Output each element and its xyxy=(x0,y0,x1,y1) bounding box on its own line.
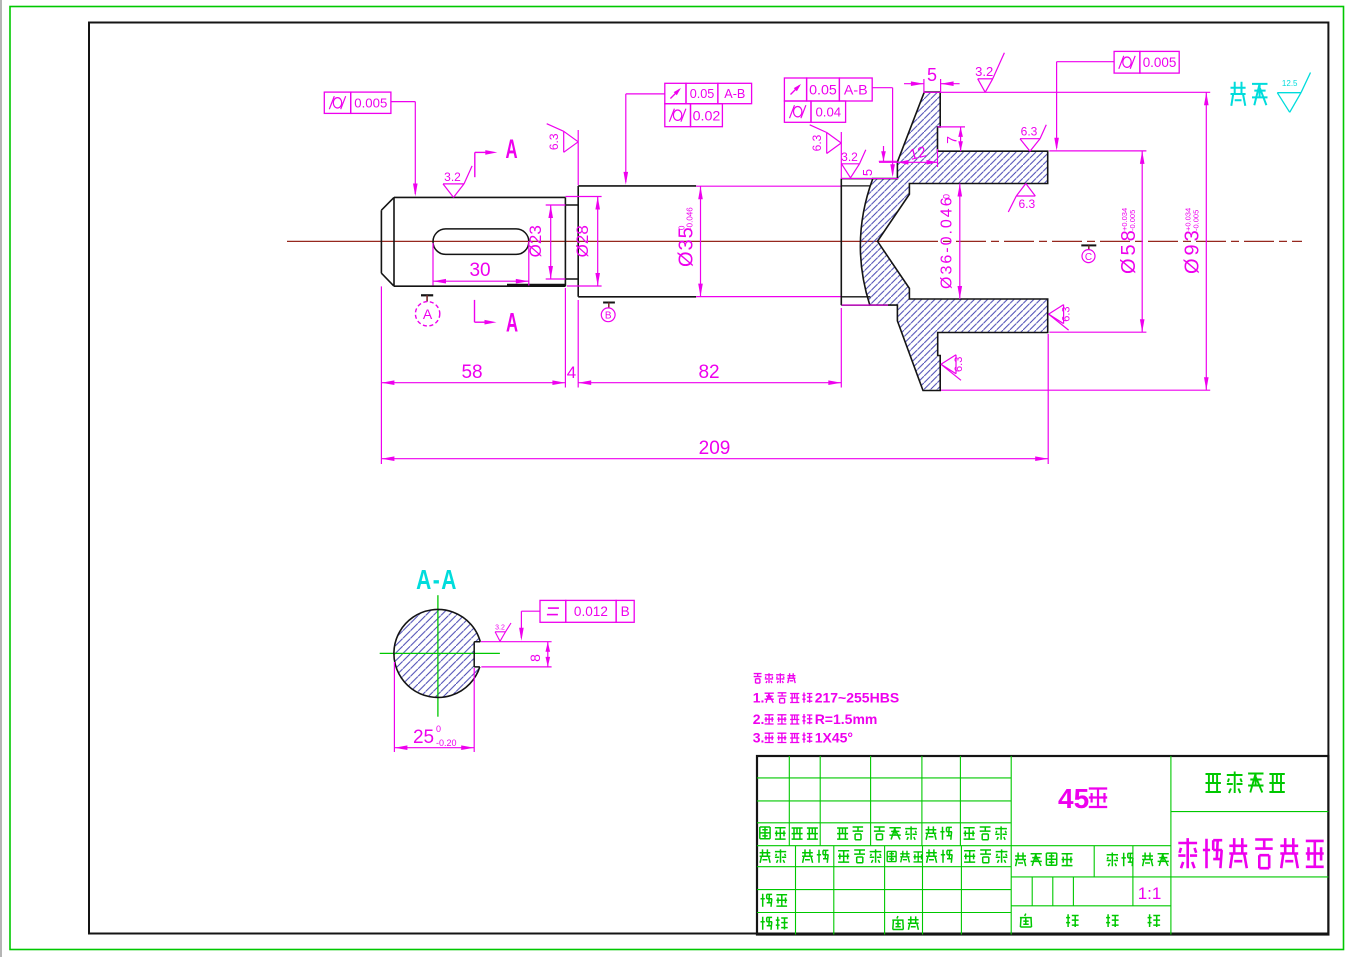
svg-text:6.3: 6.3 xyxy=(1061,306,1073,321)
technical notes (magenta) xyxy=(754,674,762,684)
dim 58 extension lines xyxy=(380,286,382,387)
datum B symbol xyxy=(603,302,615,304)
dim 25 line xyxy=(394,747,474,749)
svg-text:5: 5 xyxy=(927,65,937,85)
svg-text:0.05: 0.05 xyxy=(809,83,837,99)
section arrow A bottom xyxy=(474,300,476,322)
dim 4 extension line right xyxy=(577,300,579,388)
section arrow A top xyxy=(474,152,476,177)
roughness 6.3 at lower back face xyxy=(941,355,956,365)
svg-text:3.2: 3.2 xyxy=(444,170,461,184)
roughness 6.3 on hub top face xyxy=(1020,139,1030,152)
bell neck end line at shaft junction xyxy=(840,179,842,306)
datum A symbol xyxy=(421,294,433,296)
svg-text:Ø58: Ø58 xyxy=(1118,227,1140,274)
shenhe label xyxy=(761,894,773,907)
dim O35 line xyxy=(700,186,702,296)
svg-text:5: 5 xyxy=(860,169,875,176)
shaft O35 edge continuation (magenta extension over shaft) xyxy=(696,185,841,187)
svg-text:12.5: 12.5 xyxy=(1282,79,1298,88)
roughness 3.2 on neck face xyxy=(842,164,851,178)
A-A keyway notch white cutout xyxy=(474,642,484,667)
dim O23 line xyxy=(550,205,552,279)
svg-text:0: 0 xyxy=(942,194,952,199)
A-A hatched circle xyxy=(394,609,482,697)
shaft edge stubs into bell xyxy=(841,186,870,297)
svg-text:Ø93: Ø93 xyxy=(1182,227,1204,274)
xiangtan university title xyxy=(1206,774,1221,792)
neck top and bottom faces xyxy=(841,179,873,306)
svg-text:A-A: A-A xyxy=(416,565,458,596)
FCF neck leader xyxy=(872,87,892,89)
svg-text:R=1.5mm: R=1.5mm xyxy=(815,711,878,727)
title block left grid verticals upper xyxy=(788,756,790,846)
dim 5 line and arrows xyxy=(904,83,924,85)
relief groove O23 xyxy=(565,205,578,279)
svg-text:7: 7 xyxy=(944,136,960,144)
shaft left section O28 outline with chamfers xyxy=(381,197,565,286)
dim 82 line xyxy=(578,382,841,384)
FCF top right leader xyxy=(1057,61,1115,63)
svg-text:A-B: A-B xyxy=(724,87,745,101)
drawing title shuru zhou lingjian tu xyxy=(1178,838,1197,868)
FCF left leader xyxy=(391,101,415,103)
dim O93 extension lines xyxy=(923,91,1210,93)
shaft O35 section outline xyxy=(578,186,696,297)
svg-text:8: 8 xyxy=(527,654,543,662)
svg-text:6.3: 6.3 xyxy=(1021,125,1038,139)
keyway slot on left section xyxy=(433,229,529,255)
FCF parallelism 0.012 B xyxy=(540,600,566,622)
gong zhang di zhang labels xyxy=(1020,914,1032,927)
svg-text:3.2: 3.2 xyxy=(841,150,858,164)
title block outer border xyxy=(757,756,1328,935)
dim 5 gear tip width extensions xyxy=(923,79,925,92)
roughness 6.3 rotated at O35 shoulder xyxy=(564,131,579,142)
jieduanbiaoji label xyxy=(1015,853,1026,867)
svg-text:6.3: 6.3 xyxy=(953,357,965,372)
svg-text:-0.005: -0.005 xyxy=(1128,210,1137,231)
dim 12 ext xyxy=(937,149,939,167)
svg-text:3.: 3. xyxy=(753,730,765,746)
row sheji labels xyxy=(760,849,771,862)
svg-text:Ø28: Ø28 xyxy=(573,225,592,257)
dim 7 line xyxy=(960,127,962,151)
dim 30 line and arrows xyxy=(433,280,529,282)
svg-text:6.3: 6.3 xyxy=(810,134,824,151)
title block left grid verticals lower xyxy=(795,846,797,935)
svg-text:217~255HBS: 217~255HBS xyxy=(815,690,899,706)
roughness 3.2 at gear top xyxy=(978,79,986,93)
svg-text:Ø23: Ø23 xyxy=(526,225,545,257)
dim 12 line xyxy=(879,161,938,163)
svg-text:1:1: 1:1 xyxy=(1138,884,1162,903)
svg-text:-0.005: -0.005 xyxy=(1192,210,1201,231)
svg-text:-0.20: -0.20 xyxy=(436,738,457,748)
svg-text:0: 0 xyxy=(436,724,441,734)
A-A keyway notch outline xyxy=(474,642,480,667)
svg-text:C: C xyxy=(1085,252,1092,263)
FCF runout 0.05 A-B / cyl 0.02 (over O35) xyxy=(665,83,686,103)
svg-text:Ø36-0.046: Ø36-0.046 xyxy=(939,195,956,289)
FCF O35 leader xyxy=(626,93,665,95)
dim O28 extension lines xyxy=(566,196,602,198)
pizhun label xyxy=(892,916,903,929)
svg-text:-0.046: -0.046 xyxy=(686,207,695,230)
dim O28 line xyxy=(597,197,599,287)
svg-text:Ø35: Ø35 xyxy=(676,226,698,267)
FCF parallelism leader xyxy=(521,610,540,612)
svg-text:B: B xyxy=(605,311,612,322)
dim O23 extension lines xyxy=(546,204,566,206)
svg-text:58: 58 xyxy=(461,362,482,383)
title block main divider xyxy=(1010,756,1012,935)
svg-text:A: A xyxy=(506,307,518,337)
svg-text:82: 82 xyxy=(698,362,719,383)
title block left grid horizontals xyxy=(757,777,1011,779)
dim O58 text with tolerance xyxy=(1118,208,1140,274)
dim 209 extensions xyxy=(380,388,382,465)
svg-text:0.005: 0.005 xyxy=(1143,55,1177,70)
svg-text:3.2: 3.2 xyxy=(495,625,505,632)
main horizontal centerline (dash-dot dark red) xyxy=(287,240,908,242)
A-A keyway extension lines xyxy=(481,641,552,643)
svg-text:1X45°: 1X45° xyxy=(815,730,853,746)
dim 30 extension lines xyxy=(432,243,434,286)
A-A small roughness on keyway xyxy=(495,632,500,642)
title block middle dividers xyxy=(1011,845,1171,847)
magenta extension overlay on neck faces xyxy=(841,178,898,180)
svg-text:0.04: 0.04 xyxy=(815,104,841,119)
svg-text:4: 4 xyxy=(567,363,576,382)
svg-text:2.: 2. xyxy=(753,711,765,727)
svg-text:45: 45 xyxy=(1058,783,1089,814)
svg-text:0.05: 0.05 xyxy=(690,87,715,101)
dim O93 line xyxy=(1205,92,1207,390)
svg-text:A-B: A-B xyxy=(844,83,868,99)
svg-text:6.3: 6.3 xyxy=(547,133,561,150)
roughness 6.3 inverted under bore top edge xyxy=(1016,184,1026,197)
dim 5 neck width tick and arrows xyxy=(879,160,898,162)
roughness 6.3 rotated at neck journal xyxy=(827,133,842,144)
A-A cutting trace thick segment xyxy=(507,284,565,287)
svg-text:B: B xyxy=(621,604,630,619)
gongyi label xyxy=(761,917,773,930)
dim O58 line xyxy=(1141,151,1143,332)
svg-text:0.012: 0.012 xyxy=(574,604,608,619)
svg-text:1.: 1. xyxy=(753,690,765,706)
svg-text:30: 30 xyxy=(469,260,490,281)
window left edge artifact xyxy=(0,0,2,957)
roughness 3.2 on left shaft section xyxy=(443,184,454,198)
dim O58 extension lines xyxy=(1049,150,1146,152)
remainder roughness check (cyan) xyxy=(1277,93,1289,113)
A-A green crosshair xyxy=(437,595,439,717)
zhongliang label xyxy=(1107,853,1118,867)
bili label xyxy=(1142,853,1153,867)
dim O36 line xyxy=(959,184,961,300)
A-A circle outline broken at keyway xyxy=(394,609,480,697)
row biaoji labels xyxy=(760,827,770,839)
dim 58 line xyxy=(381,382,565,384)
FCF cylindricity 0.005 (left) xyxy=(324,92,350,113)
dim O35 text with tolerance xyxy=(676,207,698,267)
dim 25 extension lines xyxy=(393,662,395,752)
dim O93 text with tolerance xyxy=(1182,208,1204,274)
title block right dividers xyxy=(1171,811,1329,813)
svg-text:A: A xyxy=(505,134,517,164)
svg-text:0.005: 0.005 xyxy=(354,95,387,110)
dim 82 extension right xyxy=(840,308,842,388)
svg-text:6.3: 6.3 xyxy=(1018,197,1035,211)
roughness 6.3 pointing left at band right face xyxy=(1049,305,1064,315)
dim O36 text with tolerance xyxy=(939,194,956,289)
dim 7 hub step extension xyxy=(938,126,966,128)
bell gear section hatched area xyxy=(860,92,1047,390)
FCF cylindricity 0.005 (top right) xyxy=(1114,51,1140,73)
svg-text:25: 25 xyxy=(413,727,434,748)
dim 8 line xyxy=(547,642,549,667)
svg-text:A: A xyxy=(423,306,433,322)
svg-text:0.02: 0.02 xyxy=(693,108,721,124)
bell gear section outline xyxy=(860,92,1047,390)
datum C symbol on axis xyxy=(1081,244,1096,246)
dim 209 line xyxy=(381,458,1048,460)
svg-text:3.2: 3.2 xyxy=(975,64,993,79)
qi-yu remainder note (cyan) xyxy=(1231,82,1246,106)
FCF runout 0.05 A-B / cyl 0.04 (over neck) xyxy=(784,78,806,101)
svg-text:209: 209 xyxy=(699,438,731,459)
